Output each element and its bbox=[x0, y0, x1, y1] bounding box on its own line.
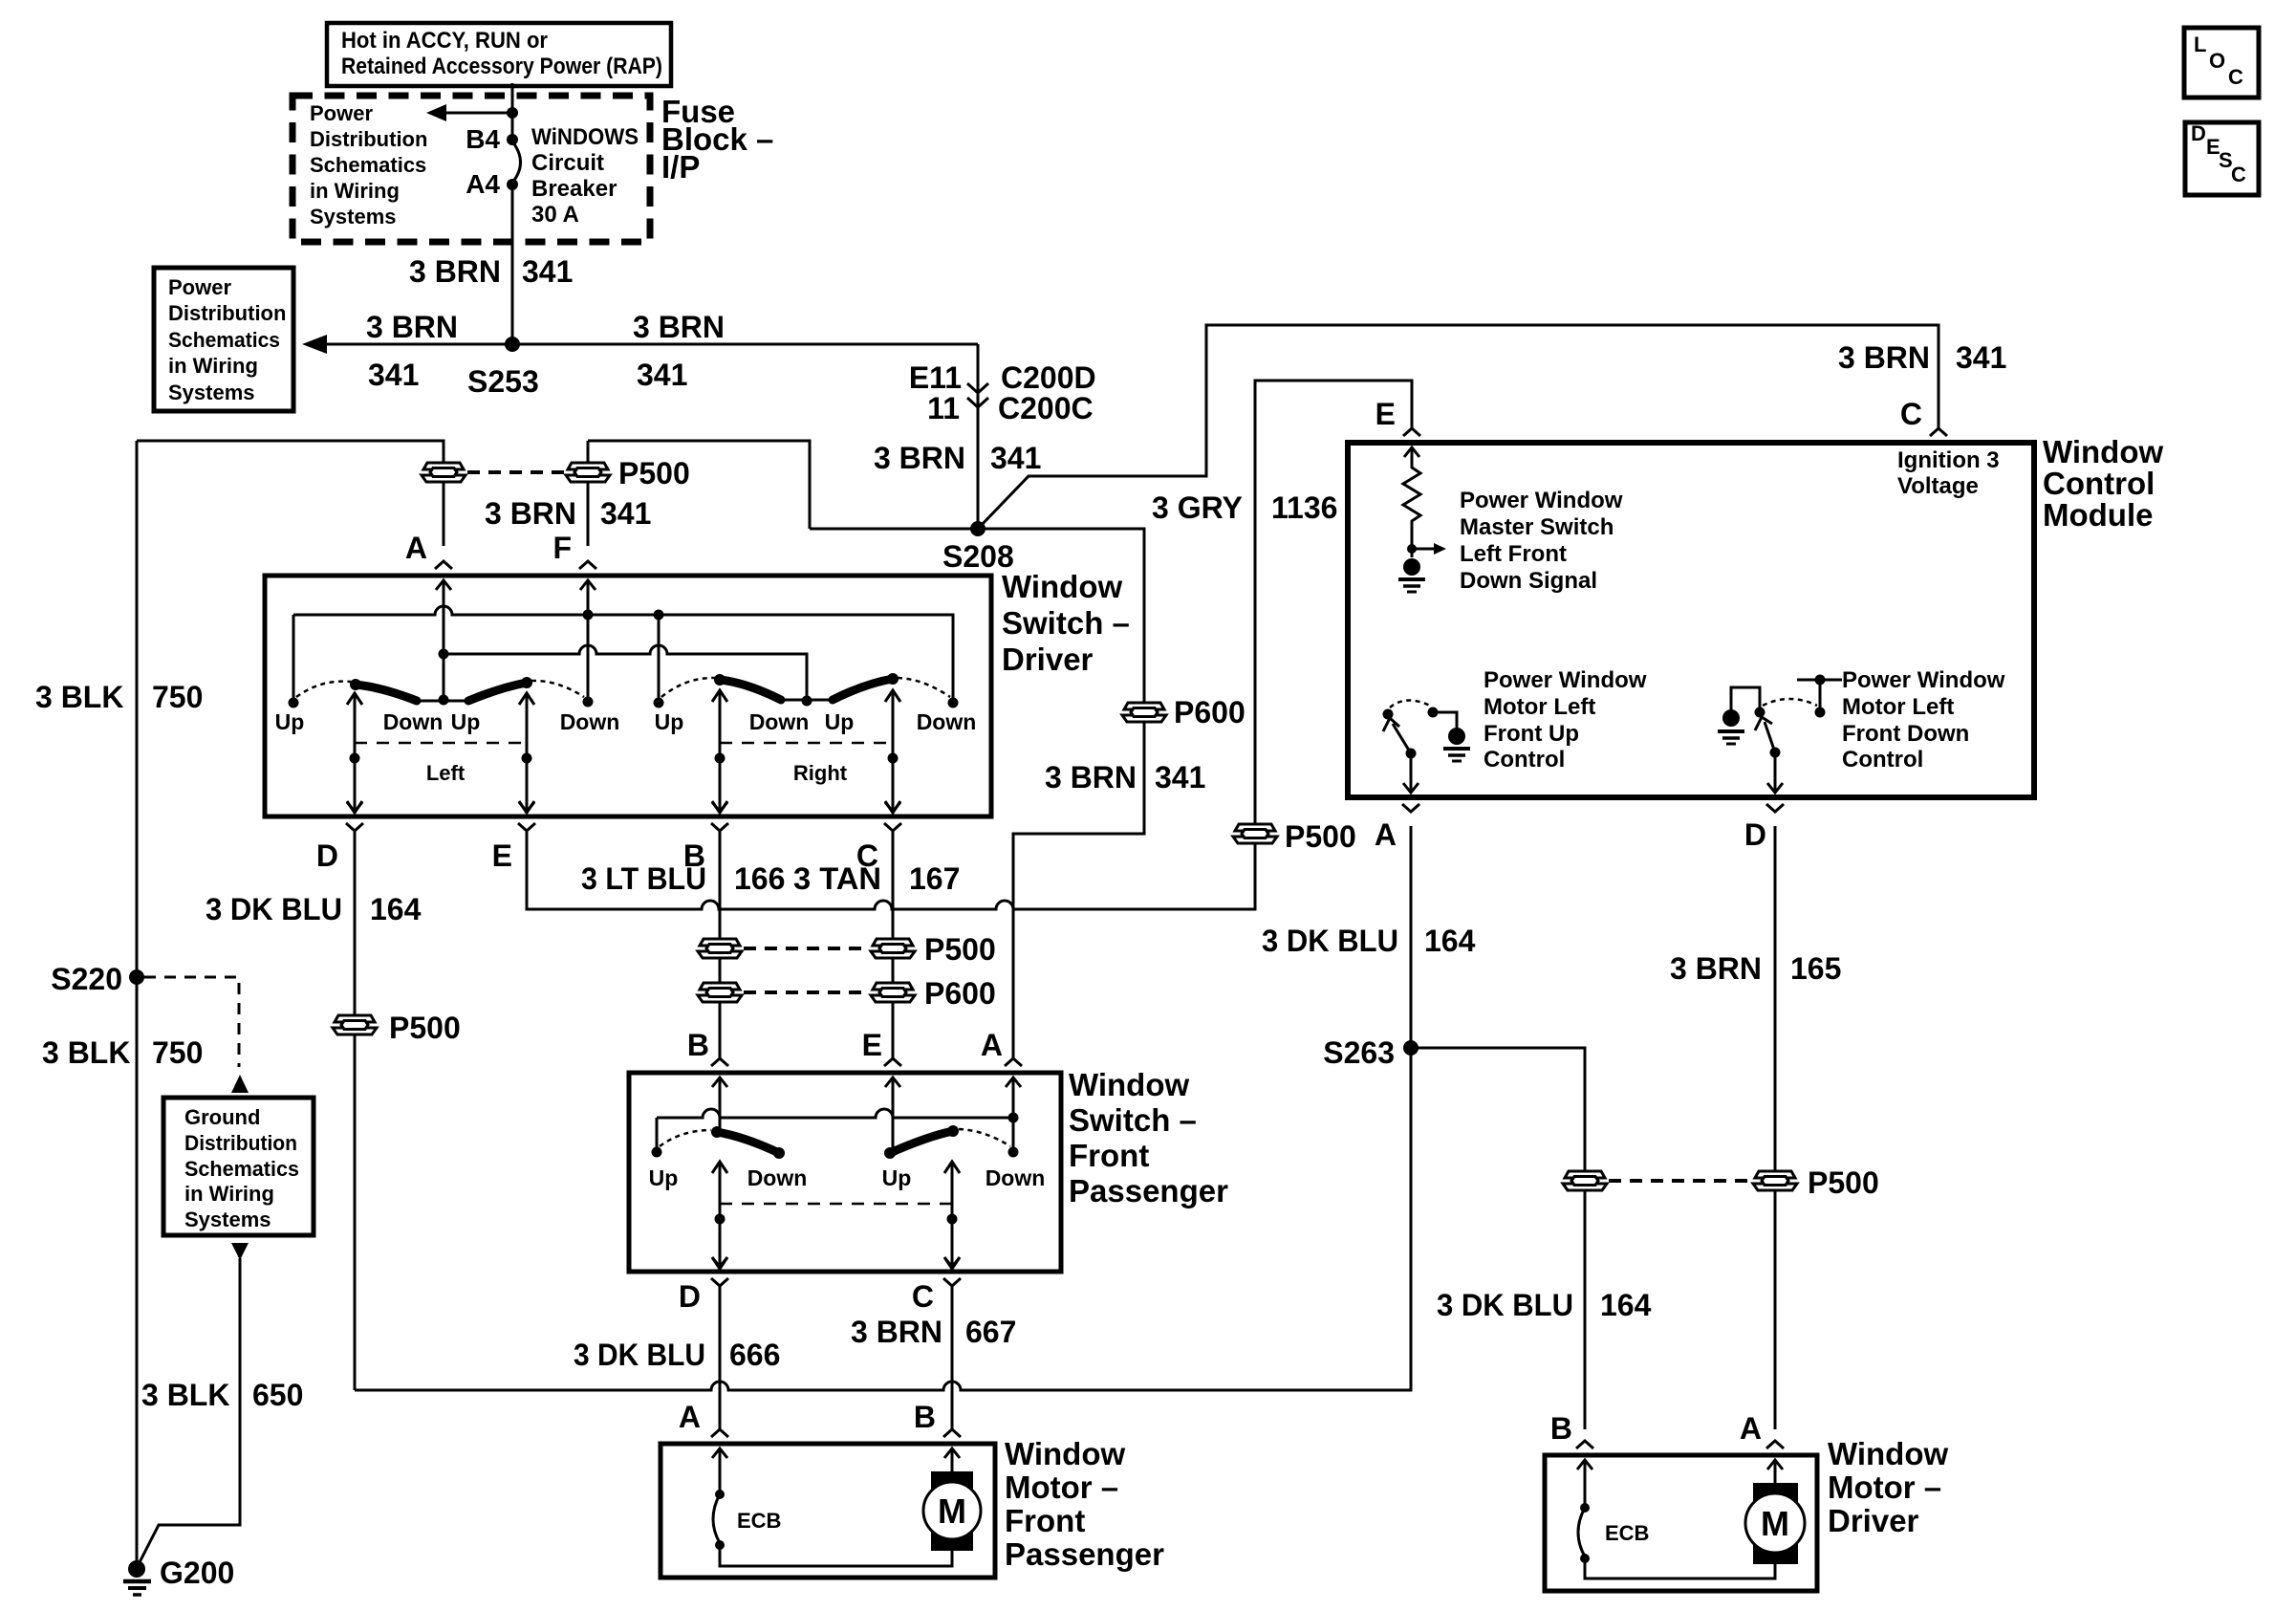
wire: inner bus 2 bbox=[444, 645, 807, 701]
svg-text:S253: S253 bbox=[467, 364, 539, 399]
indicator arrow E bbox=[519, 693, 534, 813]
svg-text:1136: 1136 bbox=[1271, 490, 1337, 525]
label box: Ground Distribution Schematics in Wiring Systems bbox=[163, 1098, 314, 1235]
wire: drop to Up contact bbox=[658, 615, 661, 703]
svg-text:Schematics: Schematics bbox=[184, 1157, 299, 1181]
wire: driver switch B to front passenger switch B (3 LT BLU 166) bbox=[719, 832, 722, 1058]
text: Power Distribution Schematics in Wiring Systems (fuse block) bbox=[310, 101, 427, 229]
rocker arc right (FP) bbox=[890, 1131, 953, 1153]
LOC reference box bbox=[2184, 28, 2259, 98]
svg-text:Schematics: Schematics bbox=[310, 153, 426, 177]
svg-text:3 DK BLU: 3 DK BLU bbox=[206, 892, 342, 926]
ground G200 bbox=[123, 1556, 234, 1595]
wire: FP pin B drop bbox=[719, 1078, 722, 1131]
svg-text:C200D: C200D bbox=[1001, 360, 1096, 395]
svg-text:Passenger: Passenger bbox=[1005, 1536, 1164, 1572]
svg-text:A4: A4 bbox=[466, 169, 500, 199]
pin E driver switch bbox=[518, 802, 535, 831]
pin B window motor front passenger bbox=[943, 1429, 961, 1458]
svg-text:S263: S263 bbox=[1323, 1035, 1395, 1070]
svg-text:P600: P600 bbox=[1174, 695, 1245, 729]
ground: master switch signal ground bbox=[1398, 558, 1425, 592]
svg-text:Front Up: Front Up bbox=[1484, 721, 1579, 747]
label: Window Switch - Front Passenger bbox=[1069, 1067, 1228, 1208]
svg-text:ECB: ECB bbox=[737, 1509, 781, 1533]
svg-text:ECB: ECB bbox=[1605, 1521, 1649, 1545]
switch contacts (driver right rocker) bbox=[654, 698, 664, 708]
svg-text:341: 341 bbox=[637, 358, 687, 392]
svg-text:D: D bbox=[2191, 121, 2206, 145]
switch: power window motor left front up control bbox=[1383, 700, 1471, 793]
svg-text:30 A: 30 A bbox=[531, 202, 579, 228]
wire: WCM D to driver motor A (3 BRN 165) bbox=[1774, 826, 1777, 1429]
svg-text:3 BRN: 3 BRN bbox=[366, 310, 458, 344]
motor M (front passenger) bbox=[923, 1448, 981, 1551]
svg-text:3 GRY: 3 GRY bbox=[1152, 490, 1243, 525]
svg-text:167: 167 bbox=[909, 861, 960, 896]
wire: arrow to power distribution schematics bbox=[444, 112, 512, 115]
svg-text:Power: Power bbox=[310, 101, 373, 125]
svg-text:3 DK BLU: 3 DK BLU bbox=[574, 1338, 705, 1372]
wire: ECB to motor (driver) bbox=[1585, 1558, 1775, 1578]
wire: FP switch D to FP motor A (3 DK BLU 666) bbox=[719, 1286, 722, 1429]
node S263 bbox=[1403, 1040, 1419, 1056]
svg-text:Down: Down bbox=[917, 709, 977, 734]
svg-text:Control: Control bbox=[1842, 747, 1923, 773]
svg-text:Power Window: Power Window bbox=[1842, 667, 2005, 693]
svg-text:Down: Down bbox=[986, 1165, 1046, 1190]
svg-text:C200C: C200C bbox=[998, 391, 1094, 425]
svg-text:P500: P500 bbox=[924, 932, 996, 967]
node: junction at B4 feed bbox=[507, 107, 518, 119]
svg-text:Front Down: Front Down bbox=[1842, 721, 1969, 747]
svg-text:C: C bbox=[1900, 397, 1922, 431]
svg-text:Window: Window bbox=[1002, 569, 1122, 604]
svg-text:750: 750 bbox=[152, 1035, 203, 1070]
indicator arrow C (FP) bbox=[944, 1162, 960, 1269]
connector P500 pair (bottom right) bbox=[1563, 1165, 1879, 1200]
wire: bus corner down to C200 connector bbox=[977, 344, 980, 529]
node S253 bbox=[505, 337, 520, 352]
svg-text:Control: Control bbox=[2043, 466, 2155, 501]
svg-text:M: M bbox=[938, 1491, 966, 1531]
rocker arcs left window switch bbox=[418, 700, 467, 703]
svg-text:A: A bbox=[1375, 817, 1397, 852]
svg-text:E: E bbox=[1375, 397, 1396, 431]
label: Window Control Module bbox=[2043, 434, 2163, 533]
svg-text:164: 164 bbox=[1424, 924, 1476, 958]
svg-text:F: F bbox=[552, 531, 572, 565]
svg-text:3 DK BLU: 3 DK BLU bbox=[1437, 1288, 1573, 1322]
wire: ECB to motor bbox=[720, 1545, 952, 1566]
wire: S208 bus bbox=[810, 529, 1144, 1058]
svg-text:E: E bbox=[492, 838, 512, 873]
component box: Window Motor - Driver bbox=[1545, 1455, 1817, 1591]
svg-text:Retained Accessory Power (RAP): Retained Accessory Power (RAP) bbox=[341, 54, 662, 79]
svg-text:341: 341 bbox=[522, 254, 573, 289]
connector P500 pair (B/C lines) bbox=[698, 932, 996, 967]
svg-text:Up: Up bbox=[451, 709, 481, 734]
svg-text:P500: P500 bbox=[618, 456, 690, 490]
label box: Hot in ACCY RUN or RAP bbox=[327, 23, 671, 86]
component box: Window Switch - Driver bbox=[265, 576, 991, 816]
svg-text:750: 750 bbox=[152, 680, 203, 714]
resistor: master switch down signal pull-up bbox=[1403, 447, 1446, 557]
svg-text:Hot in ACCY, RUN or: Hot in ACCY, RUN or bbox=[341, 28, 548, 54]
circuit breaker ECB (FP motor) bbox=[713, 1448, 781, 1550]
svg-text:A: A bbox=[679, 1400, 701, 1434]
svg-text:O: O bbox=[2209, 49, 2225, 73]
svg-text:Down: Down bbox=[560, 709, 620, 734]
wire: S253 bus with arrow into power distribution bbox=[302, 335, 327, 354]
pin E window control module bbox=[1403, 428, 1420, 457]
connector P600 pair (B/C lines) bbox=[698, 976, 996, 1011]
svg-text:Motor –: Motor – bbox=[1828, 1469, 1941, 1505]
svg-text:Power: Power bbox=[168, 275, 231, 299]
wire: driver switch D down (3 DK BLU 164) bbox=[354, 832, 357, 1390]
svg-text:M: M bbox=[1761, 1504, 1789, 1543]
svg-text:P500: P500 bbox=[389, 1011, 461, 1045]
pin A window motor front passenger bbox=[711, 1429, 728, 1458]
svg-text:3 BLK: 3 BLK bbox=[141, 1378, 229, 1412]
wire: inner bus 1 bbox=[293, 606, 953, 703]
pin A window control module bbox=[1402, 783, 1419, 812]
svg-text:Driver: Driver bbox=[1002, 642, 1094, 677]
svg-text:Distribution: Distribution bbox=[184, 1131, 297, 1155]
svg-text:P500: P500 bbox=[1285, 819, 1356, 854]
wire: FP inner bus bbox=[657, 1109, 1013, 1152]
svg-text:3 DK BLU: 3 DK BLU bbox=[1262, 924, 1398, 958]
svg-text:I/P: I/P bbox=[661, 149, 700, 185]
labels: 3 LT BLU 166 3 TAN 167 bbox=[581, 861, 960, 896]
svg-text:Motor –: Motor – bbox=[1005, 1469, 1118, 1505]
svg-text:Breaker: Breaker bbox=[531, 176, 617, 202]
svg-text:666: 666 bbox=[729, 1338, 780, 1372]
svg-text:Schematics: Schematics bbox=[168, 328, 280, 352]
svg-text:341: 341 bbox=[368, 358, 419, 392]
svg-text:3 BRN: 3 BRN bbox=[485, 496, 576, 531]
wire: dashed branch from S220 to ground distribution reference bbox=[144, 977, 239, 1067]
wire: S263 branch to driver motor B bbox=[1411, 1048, 1585, 1429]
svg-text:Front: Front bbox=[1069, 1138, 1149, 1173]
svg-text:Up: Up bbox=[882, 1165, 912, 1190]
component box: Window Control Module U1 bbox=[1348, 443, 2034, 797]
svg-text:Power Window: Power Window bbox=[1460, 488, 1623, 513]
svg-text:Up: Up bbox=[275, 709, 305, 734]
svg-text:Passenger: Passenger bbox=[1069, 1173, 1228, 1208]
pin F driver switch bbox=[579, 561, 596, 590]
pin E front passenger switch bbox=[884, 1058, 901, 1087]
indicator arrow B bbox=[712, 690, 727, 813]
wire: F feed bbox=[588, 441, 810, 546]
wire: FP pin A drop bbox=[1012, 1078, 1015, 1152]
svg-text:D: D bbox=[679, 1279, 701, 1314]
mechanical link dashed (Left) bbox=[355, 742, 527, 745]
svg-text:Front: Front bbox=[1005, 1503, 1085, 1538]
svg-text:Right: Right bbox=[793, 761, 848, 785]
svg-text:Systems: Systems bbox=[310, 205, 397, 229]
svg-text:in Wiring: in Wiring bbox=[168, 354, 258, 378]
svg-text:3 LT BLU: 3 LT BLU bbox=[581, 861, 706, 896]
text: Power Window Master Switch Left Front Down Signal bbox=[1460, 488, 1623, 594]
svg-text:3 TAN: 3 TAN bbox=[793, 861, 881, 896]
svg-text:667: 667 bbox=[965, 1315, 1016, 1349]
svg-text:341: 341 bbox=[1155, 760, 1205, 795]
wire: breaker output down to S253 bbox=[511, 187, 514, 340]
svg-text:Window: Window bbox=[1069, 1067, 1189, 1102]
label: Ignition 3 Voltage bbox=[1897, 447, 2000, 499]
svg-text:341: 341 bbox=[600, 496, 651, 531]
node: bus junctions bbox=[583, 610, 594, 620]
svg-text:Control: Control bbox=[1484, 747, 1565, 773]
svg-text:S208: S208 bbox=[942, 539, 1014, 574]
svg-text:Down: Down bbox=[383, 709, 444, 734]
motor M (driver) bbox=[1745, 1460, 1805, 1564]
svg-text:G200: G200 bbox=[160, 1556, 234, 1590]
svg-text:Up: Up bbox=[655, 709, 684, 734]
pin B driver switch bbox=[711, 802, 728, 831]
svg-text:3 BRN: 3 BRN bbox=[633, 310, 725, 344]
svg-text:Up: Up bbox=[649, 1165, 679, 1190]
DESC reference box bbox=[2185, 121, 2259, 195]
svg-text:3 BLK: 3 BLK bbox=[35, 680, 123, 714]
pin C window control module bbox=[1930, 428, 1947, 436]
pin A driver switch bbox=[435, 561, 452, 590]
svg-text:Module: Module bbox=[2043, 497, 2153, 533]
svg-text:3 BRN: 3 BRN bbox=[409, 254, 501, 289]
wire: FP pin E drop bbox=[892, 1078, 895, 1153]
svg-text:341: 341 bbox=[990, 441, 1041, 475]
svg-text:B4: B4 bbox=[466, 124, 500, 154]
indicator arrow C bbox=[885, 690, 900, 813]
mechanical link dashed (Right) bbox=[720, 742, 893, 745]
svg-text:Power Window: Power Window bbox=[1484, 667, 1647, 693]
wire: driver switch C to front passenger switch E (3 TAN 167) bbox=[892, 832, 895, 1058]
svg-text:L: L bbox=[2194, 33, 2206, 56]
svg-text:166: 166 bbox=[734, 861, 785, 896]
label: Window Motor - Driver bbox=[1828, 1436, 1948, 1538]
svg-text:Window: Window bbox=[1828, 1436, 1948, 1471]
wire: F drop to Down contact bbox=[587, 580, 590, 702]
labels: Up/Down row driver switch bbox=[275, 709, 977, 734]
node S208 bbox=[970, 521, 986, 536]
svg-text:3 BRN: 3 BRN bbox=[1838, 340, 1930, 375]
pin A front passenger switch bbox=[1005, 1058, 1022, 1087]
component box: Window Motor - Front Passenger bbox=[661, 1444, 995, 1578]
rocker arc left (FP) bbox=[717, 1132, 779, 1153]
circuit breaker CB: WINDOWS 30A bbox=[466, 124, 639, 228]
indicator arrow D bbox=[347, 693, 362, 813]
svg-text:Left Front: Left Front bbox=[1460, 541, 1567, 567]
svg-text:Motor Left: Motor Left bbox=[1842, 694, 1954, 720]
svg-text:3 BRN: 3 BRN bbox=[851, 1315, 942, 1349]
svg-text:Systems: Systems bbox=[168, 381, 255, 404]
svg-text:C: C bbox=[912, 1279, 934, 1314]
svg-text:Window: Window bbox=[1005, 1436, 1125, 1471]
svg-text:B: B bbox=[687, 1028, 709, 1062]
connector P600 bbox=[1122, 703, 1166, 722]
switch: power window motor left front down control bbox=[1718, 675, 1842, 794]
connector P500 (3 GRY line) bbox=[1233, 824, 1277, 843]
wire: FP switch C to FP motor B (3 BRN 667) bbox=[951, 1286, 954, 1429]
svg-text:165: 165 bbox=[1790, 951, 1841, 986]
svg-text:P600: P600 bbox=[924, 976, 996, 1011]
svg-text:S220: S220 bbox=[51, 962, 122, 996]
svg-text:Down: Down bbox=[747, 1165, 808, 1190]
svg-text:D: D bbox=[316, 838, 338, 873]
component box: Window Switch - Front Passenger bbox=[629, 1073, 1061, 1272]
svg-text:3 BRN: 3 BRN bbox=[1045, 760, 1137, 795]
svg-text:Distribution: Distribution bbox=[310, 127, 427, 151]
svg-text:Circuit: Circuit bbox=[531, 150, 604, 176]
svg-text:Left: Left bbox=[426, 761, 466, 785]
text: Power Window Motor Left Front Up Control bbox=[1484, 667, 1647, 773]
svg-text:3 BRN: 3 BRN bbox=[874, 441, 965, 475]
connector P500 (D line) bbox=[333, 1015, 377, 1034]
svg-text:C: C bbox=[2231, 163, 2246, 186]
svg-text:Switch –: Switch – bbox=[1002, 605, 1130, 641]
svg-text:E11: E11 bbox=[909, 360, 962, 395]
labels: Up/Down row FP switch bbox=[649, 1165, 1046, 1190]
pin B front passenger switch bbox=[711, 1058, 728, 1087]
svg-text:Driver: Driver bbox=[1828, 1503, 1919, 1538]
text: Power Window Motor Left Front Down Control bbox=[1842, 667, 2005, 773]
label box: Power Distribution Schematics in Wiring Systems bbox=[154, 268, 293, 411]
svg-text:Distribution: Distribution bbox=[168, 301, 286, 325]
svg-text:Motor Left: Motor Left bbox=[1484, 694, 1595, 720]
svg-text:in Wiring: in Wiring bbox=[310, 179, 400, 203]
pin D front passenger switch bbox=[711, 1257, 728, 1286]
svg-text:Switch –: Switch – bbox=[1069, 1102, 1197, 1138]
svg-text:3 BLK: 3 BLK bbox=[42, 1035, 130, 1070]
svg-text:Master Switch: Master Switch bbox=[1460, 514, 1614, 540]
wire: 3 DK BLU 164 rail from driver D to WCM A bbox=[355, 826, 1411, 1390]
svg-text:650: 650 bbox=[252, 1378, 303, 1412]
pin C driver switch bbox=[884, 802, 901, 831]
svg-text:Ignition 3: Ignition 3 bbox=[1897, 447, 2000, 473]
svg-text:P500: P500 bbox=[1808, 1165, 1879, 1200]
svg-text:C: C bbox=[2228, 65, 2243, 89]
contacts front passenger switch bbox=[652, 1147, 662, 1158]
wire: ground feed across top to driver switch pin A bbox=[137, 441, 444, 546]
wire: feed from hot box into fuse block bbox=[511, 83, 514, 136]
svg-text:A: A bbox=[981, 1028, 1003, 1062]
svg-text:Window: Window bbox=[2043, 434, 2163, 469]
node S220 bbox=[129, 969, 144, 985]
svg-text:A: A bbox=[405, 531, 427, 565]
svg-text:D: D bbox=[1744, 817, 1766, 852]
label: Window Switch - Driver bbox=[1002, 569, 1130, 677]
labels: 3 DK BLU 666 / 3 BRN 667 bbox=[574, 1315, 1016, 1372]
svg-text:B: B bbox=[1550, 1411, 1572, 1446]
indicator arrow D (FP) bbox=[712, 1162, 727, 1269]
svg-text:Up: Up bbox=[825, 709, 855, 734]
svg-text:Voltage: Voltage bbox=[1897, 473, 1979, 499]
svg-text:Down: Down bbox=[749, 709, 810, 734]
mechanical link dashed (FP) bbox=[720, 1203, 952, 1206]
connector P500 pair (A/F) bbox=[422, 456, 690, 490]
svg-text:Ground: Ground bbox=[184, 1105, 260, 1129]
svg-text:164: 164 bbox=[1600, 1288, 1652, 1322]
svg-text:B: B bbox=[914, 1400, 936, 1434]
svg-text:Down Signal: Down Signal bbox=[1460, 568, 1597, 594]
pin A window motor driver bbox=[1766, 1441, 1784, 1469]
wire: driver switch pin A line bbox=[443, 580, 445, 700]
label: Window Motor - Front Passenger bbox=[1005, 1436, 1164, 1572]
svg-text:11: 11 bbox=[927, 391, 960, 425]
svg-text:3 BRN: 3 BRN bbox=[1670, 951, 1762, 986]
label: 3 BRN 341 bbox=[409, 254, 573, 289]
svg-text:Systems: Systems bbox=[184, 1208, 271, 1231]
svg-text:in Wiring: in Wiring bbox=[184, 1182, 274, 1206]
svg-text:A: A bbox=[1740, 1411, 1762, 1446]
wire: 3 GRY 1136 from driver switch E to WCM pin E bbox=[527, 381, 1412, 909]
wire: S208 diagonal to window control module pin C bbox=[980, 325, 1939, 527]
svg-text:341: 341 bbox=[1956, 340, 2006, 375]
wire: 3 BLK 650 from ground reference to G200 bbox=[231, 1243, 249, 1260]
label: Fuse Block - I/P bbox=[661, 94, 773, 185]
pin D window control module bbox=[1766, 783, 1784, 812]
rocker arcs right window switch bbox=[782, 699, 832, 702]
pin C front passenger switch bbox=[943, 1257, 961, 1286]
fuse block dashed box bbox=[292, 96, 650, 242]
svg-text:164: 164 bbox=[370, 892, 422, 926]
svg-text:E: E bbox=[862, 1028, 882, 1062]
connector C200D/C200C chevrons bbox=[967, 383, 988, 393]
pin D driver switch bbox=[346, 802, 363, 831]
switch contacts (driver left rocker) bbox=[289, 698, 299, 708]
pin B window motor driver bbox=[1576, 1441, 1593, 1469]
svg-text:WiNDOWS: WiNDOWS bbox=[531, 124, 639, 150]
circuit breaker ECB (driver motor) bbox=[1578, 1460, 1649, 1563]
wire: 3 BLK 750 ground line down left side bbox=[136, 441, 139, 1569]
